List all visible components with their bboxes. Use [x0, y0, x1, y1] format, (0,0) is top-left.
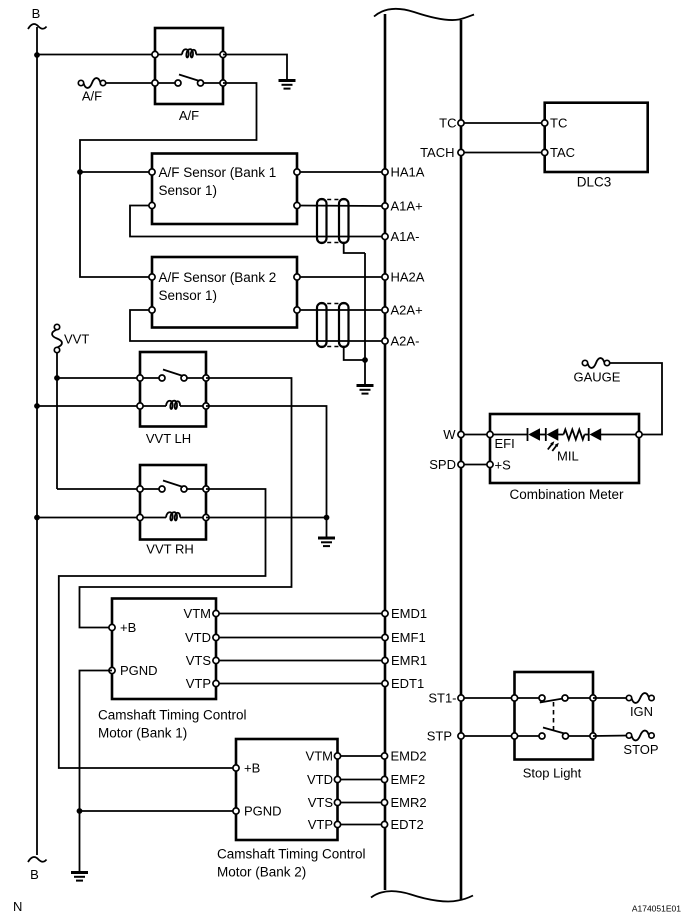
ECM pin A1A+	[382, 203, 388, 209]
stop light switch contacts	[539, 695, 545, 701]
ECM bottom break wave	[371, 891, 473, 901]
svg-text:+B: +B	[244, 761, 260, 776]
MIL light arrows	[548, 441, 559, 451]
ECM pin EMF1	[382, 634, 388, 640]
relay switch contacts	[175, 80, 181, 86]
svg-text:A2A+: A2A+	[391, 303, 423, 318]
sensor bank2 terminals	[149, 274, 155, 280]
svg-text:Motor (Bank 1): Motor (Bank 1)	[98, 726, 187, 741]
relay A/F box	[155, 28, 223, 104]
svg-text:HA1A: HA1A	[391, 165, 425, 180]
fuse GAUGE	[582, 360, 587, 365]
wire B bus to VVT RH coil	[37, 517, 140, 519]
svg-text:A1A+: A1A+	[391, 199, 423, 214]
svg-text:EMD1: EMD1	[391, 606, 427, 621]
svg-text:VTP: VTP	[186, 676, 211, 691]
stop light linkage dashed	[553, 702, 555, 730]
wire VVT fuse feed vertical	[56, 353, 58, 490]
junction VVT feed	[54, 375, 60, 381]
wire VTS to EMR2	[338, 802, 385, 804]
svg-text:B: B	[30, 867, 39, 882]
VVT RH switch blade	[163, 481, 183, 488]
stop light box terminals	[511, 695, 517, 701]
junction shield drain	[362, 357, 368, 363]
wire A1A+	[297, 205, 385, 208]
svg-text:W: W	[443, 427, 456, 442]
svg-text:VTD: VTD	[307, 772, 333, 787]
diode D3	[589, 428, 602, 441]
VVT RH coil	[166, 512, 180, 520]
wire PGND ground stem	[79, 811, 81, 872]
VVT LH switch contacts	[159, 375, 165, 381]
stop light switch blades	[540, 699, 563, 703]
wire shield1 drain	[344, 243, 365, 253]
svg-text:A/F: A/F	[179, 108, 199, 123]
VVT RH switch contacts	[159, 486, 165, 492]
junction relay output branch	[77, 169, 83, 175]
svg-text:Combination Meter: Combination Meter	[509, 487, 624, 502]
svg-text:Sensor 1): Sensor 1)	[159, 288, 218, 303]
motor bank2 +B terminal	[233, 765, 239, 771]
meter terminals	[487, 431, 493, 437]
DLC3 box	[545, 103, 648, 172]
svg-text:A/F Sensor (Bank 1: A/F Sensor (Bank 1	[159, 165, 277, 180]
ECM pin EDT1	[382, 680, 388, 686]
ECM left vertical line	[384, 14, 387, 890]
svg-text:A174051E01: A174051E01	[632, 904, 681, 914]
DLC3 terminals	[542, 120, 548, 126]
wire shield drain bus to ground	[364, 253, 366, 385]
ECM pin ST1-	[458, 695, 464, 701]
motor bank1 output terminals	[213, 610, 219, 616]
wire VTD to EMF2	[338, 779, 385, 781]
Camshaft Timing Control Motor (Bank 1) box	[112, 599, 216, 700]
VVT RH terminals	[137, 486, 143, 492]
junction on B bus to A/F relay	[34, 52, 40, 58]
svg-text:TAC: TAC	[550, 145, 575, 160]
svg-text:STOP: STOP	[623, 742, 658, 757]
svg-text:EMD2: EMD2	[391, 749, 427, 764]
ECM pin A2A+	[382, 307, 388, 313]
ECM pin EMD2	[381, 753, 387, 759]
svg-text:EMR2: EMR2	[391, 795, 427, 810]
wire HA1A	[297, 171, 385, 173]
svg-text:DLC3: DLC3	[577, 175, 612, 190]
diode D2 (MIL lamp)	[546, 428, 559, 441]
wire A2A-	[130, 310, 385, 341]
ECM pin A1A-	[382, 233, 388, 239]
junction B bus to VVT LH coil	[34, 403, 40, 409]
wire branch to bank1 sensor	[80, 171, 152, 173]
fuse STOP	[626, 733, 631, 738]
svg-text:A/F: A/F	[82, 89, 102, 104]
wire VTS to EMR1	[216, 660, 385, 662]
VVT LH coil	[166, 401, 180, 409]
svg-text:VVT LH: VVT LH	[146, 431, 191, 446]
wire stop light to IGN fuse	[593, 697, 629, 699]
wire GAUGE to combination meter	[610, 363, 662, 435]
wire W to EFI	[461, 434, 490, 436]
svg-text:HA2A: HA2A	[391, 270, 425, 285]
svg-text:+S: +S	[495, 458, 512, 473]
wire VTM to EMD1	[216, 613, 385, 615]
ECM pin EMR2	[381, 799, 387, 805]
svg-text:Camshaft Timing Control: Camshaft Timing Control	[98, 708, 247, 723]
VVT LH box	[140, 352, 206, 427]
svg-text:TACH: TACH	[420, 145, 454, 160]
A/F Sensor (Bank 1 Sensor 1) box	[152, 154, 297, 225]
svg-text:Camshaft Timing Control: Camshaft Timing Control	[217, 847, 366, 862]
junction B bus to VVT RH coil	[34, 515, 40, 521]
svg-text:VTM: VTM	[184, 606, 211, 621]
wire ST1- to stop light	[461, 697, 515, 699]
svg-text:EMR1: EMR1	[391, 653, 427, 668]
shielded cable symbol (bank2)	[317, 303, 349, 347]
ground (sensor shield)	[357, 386, 374, 394]
svg-text:A2A-: A2A-	[391, 334, 420, 349]
wire B bus to VVT LH coil	[37, 405, 140, 407]
svg-text:EDT1: EDT1	[391, 676, 424, 691]
relay coil	[182, 49, 196, 57]
relay switch blade	[179, 75, 200, 82]
ECM pin EMF2	[381, 776, 387, 782]
wire shield2 drain	[344, 347, 365, 360]
wire HA2A	[297, 276, 385, 278]
svg-text:N: N	[13, 899, 22, 914]
wire TC to DLC3	[461, 122, 545, 124]
VVT LH switch blade	[163, 370, 183, 377]
svg-text:VTS: VTS	[186, 653, 212, 668]
wire STP to stop light	[461, 735, 515, 737]
shielded cable symbol (bank1)	[317, 199, 349, 243]
svg-text:TC: TC	[439, 116, 456, 131]
Combination Meter box	[490, 414, 639, 483]
svg-text:Motor (Bank 2): Motor (Bank 2)	[217, 865, 306, 880]
relay coil wire segments	[155, 54, 182, 56]
wire relay switch output to sensors	[80, 83, 257, 277]
ECM pin TACH	[458, 149, 464, 155]
wire VTD to EMF1	[216, 637, 385, 639]
ground (PGND)	[71, 873, 88, 881]
ECM pin EMR1	[382, 657, 388, 663]
ground (VVT coils)	[318, 538, 335, 546]
motor bank2 PGND terminal	[233, 808, 239, 814]
wire VTP to EDT1	[216, 683, 385, 685]
Stop Light box	[515, 672, 594, 760]
svg-text:ST1-: ST1-	[428, 691, 456, 706]
VVT RH coil wire	[140, 517, 166, 519]
wire ground stem	[326, 518, 328, 538]
wire VVT RH coil to ground junction	[206, 517, 327, 519]
fuse A/F	[78, 80, 83, 85]
wire B power bus vertical	[36, 27, 38, 855]
motor bank1 PGND terminal	[109, 667, 115, 673]
ECM pin HA1A	[382, 169, 388, 175]
svg-text:Stop Light: Stop Light	[523, 766, 582, 781]
wire VVT RH switch to +B bank2	[59, 489, 266, 768]
ground (A/F relay)	[279, 81, 296, 89]
svg-text:TC: TC	[550, 116, 567, 131]
svg-text:Sensor 1): Sensor 1)	[159, 183, 218, 198]
VVT LH terminals	[137, 375, 143, 381]
wire B bus break squiggle bottom	[28, 857, 47, 862]
motor bank1 +B terminal	[109, 624, 115, 630]
motor bank2 output terminals	[334, 753, 340, 759]
ECM pin W	[458, 431, 464, 437]
wire A2A+	[297, 309, 385, 311]
svg-text:A1A-: A1A-	[391, 229, 420, 244]
svg-text:SPD: SPD	[429, 457, 456, 472]
svg-text:EMF1: EMF1	[391, 630, 426, 645]
wire VTP to EDT2	[338, 824, 385, 826]
svg-text:EDT2: EDT2	[391, 817, 424, 832]
svg-text:B: B	[32, 6, 41, 21]
svg-text:VTD: VTD	[185, 630, 211, 645]
wire B bus to A/F relay coil	[37, 54, 155, 56]
svg-text:VVT: VVT	[64, 332, 89, 347]
VVT LH coil wire	[140, 405, 166, 407]
junction VVT coils ground	[324, 515, 330, 521]
wire fuse to relay switch	[106, 82, 175, 84]
svg-text:EFI: EFI	[495, 436, 515, 451]
svg-text:VTM: VTM	[306, 749, 333, 764]
ECM pin TC	[458, 120, 464, 126]
relay terminal circles	[152, 51, 158, 57]
svg-text:VTP: VTP	[308, 817, 333, 832]
VVT RH switch wire	[140, 488, 162, 490]
ECM top break wave	[374, 9, 474, 20]
svg-text:GAUGE: GAUGE	[574, 370, 621, 385]
wire VVT LH switch to +B bank1	[80, 378, 292, 628]
svg-text:A/F Sensor (Bank 2: A/F Sensor (Bank 2	[159, 270, 277, 285]
wire VVT feed to VVT LH switch	[57, 377, 140, 379]
Camshaft Timing Control Motor (Bank 2) box	[236, 739, 338, 840]
wire VVT feed to VVT RH switch	[57, 488, 140, 490]
svg-text:VTS: VTS	[308, 795, 334, 810]
ECM pin SPD	[458, 461, 464, 467]
svg-text:PGND: PGND	[120, 663, 158, 678]
svg-text:MIL: MIL	[557, 449, 579, 464]
sensor bank1 terminals	[149, 169, 155, 175]
wire TACH to DLC3	[461, 152, 545, 154]
svg-text:+B: +B	[120, 620, 136, 635]
VVT LH switch wire	[140, 377, 162, 379]
stop light switch wires	[515, 697, 543, 699]
wire stop light to STOP fuse	[593, 735, 629, 738]
svg-text:EMF2: EMF2	[391, 772, 426, 787]
ECM pin EDT2	[381, 821, 387, 827]
wire relay coil to ground	[223, 55, 287, 81]
ECM pin STP	[458, 733, 464, 739]
wire B bus break squiggle top	[28, 24, 47, 29]
fuse VVT (vertical)	[54, 324, 59, 329]
wire SPD to +S	[461, 464, 490, 466]
svg-text:IGN: IGN	[630, 704, 653, 719]
ECM pin HA2A	[382, 274, 388, 280]
resistor	[564, 430, 585, 440]
svg-text:PGND: PGND	[244, 804, 282, 819]
ECM pin A2A-	[382, 338, 388, 344]
fuse IGN	[626, 695, 631, 700]
diode D1	[528, 428, 541, 441]
svg-text:VVT RH: VVT RH	[146, 542, 193, 557]
wire A1A-	[130, 206, 385, 237]
ECM right vertical line	[460, 20, 463, 900]
wire VTM to EMD2	[338, 755, 385, 757]
svg-text:STP: STP	[427, 729, 452, 744]
ECM pin EMD1	[382, 610, 388, 616]
meter EFI internal wire	[490, 434, 528, 436]
wire PGND bank1 to PGND bank2 and ground	[80, 671, 237, 812]
VVT RH box	[140, 465, 206, 540]
junction PGND ground	[77, 808, 83, 814]
A/F Sensor (Bank 2 Sensor 1) box	[152, 257, 297, 328]
wire VVT LH coil to ground	[206, 406, 327, 518]
